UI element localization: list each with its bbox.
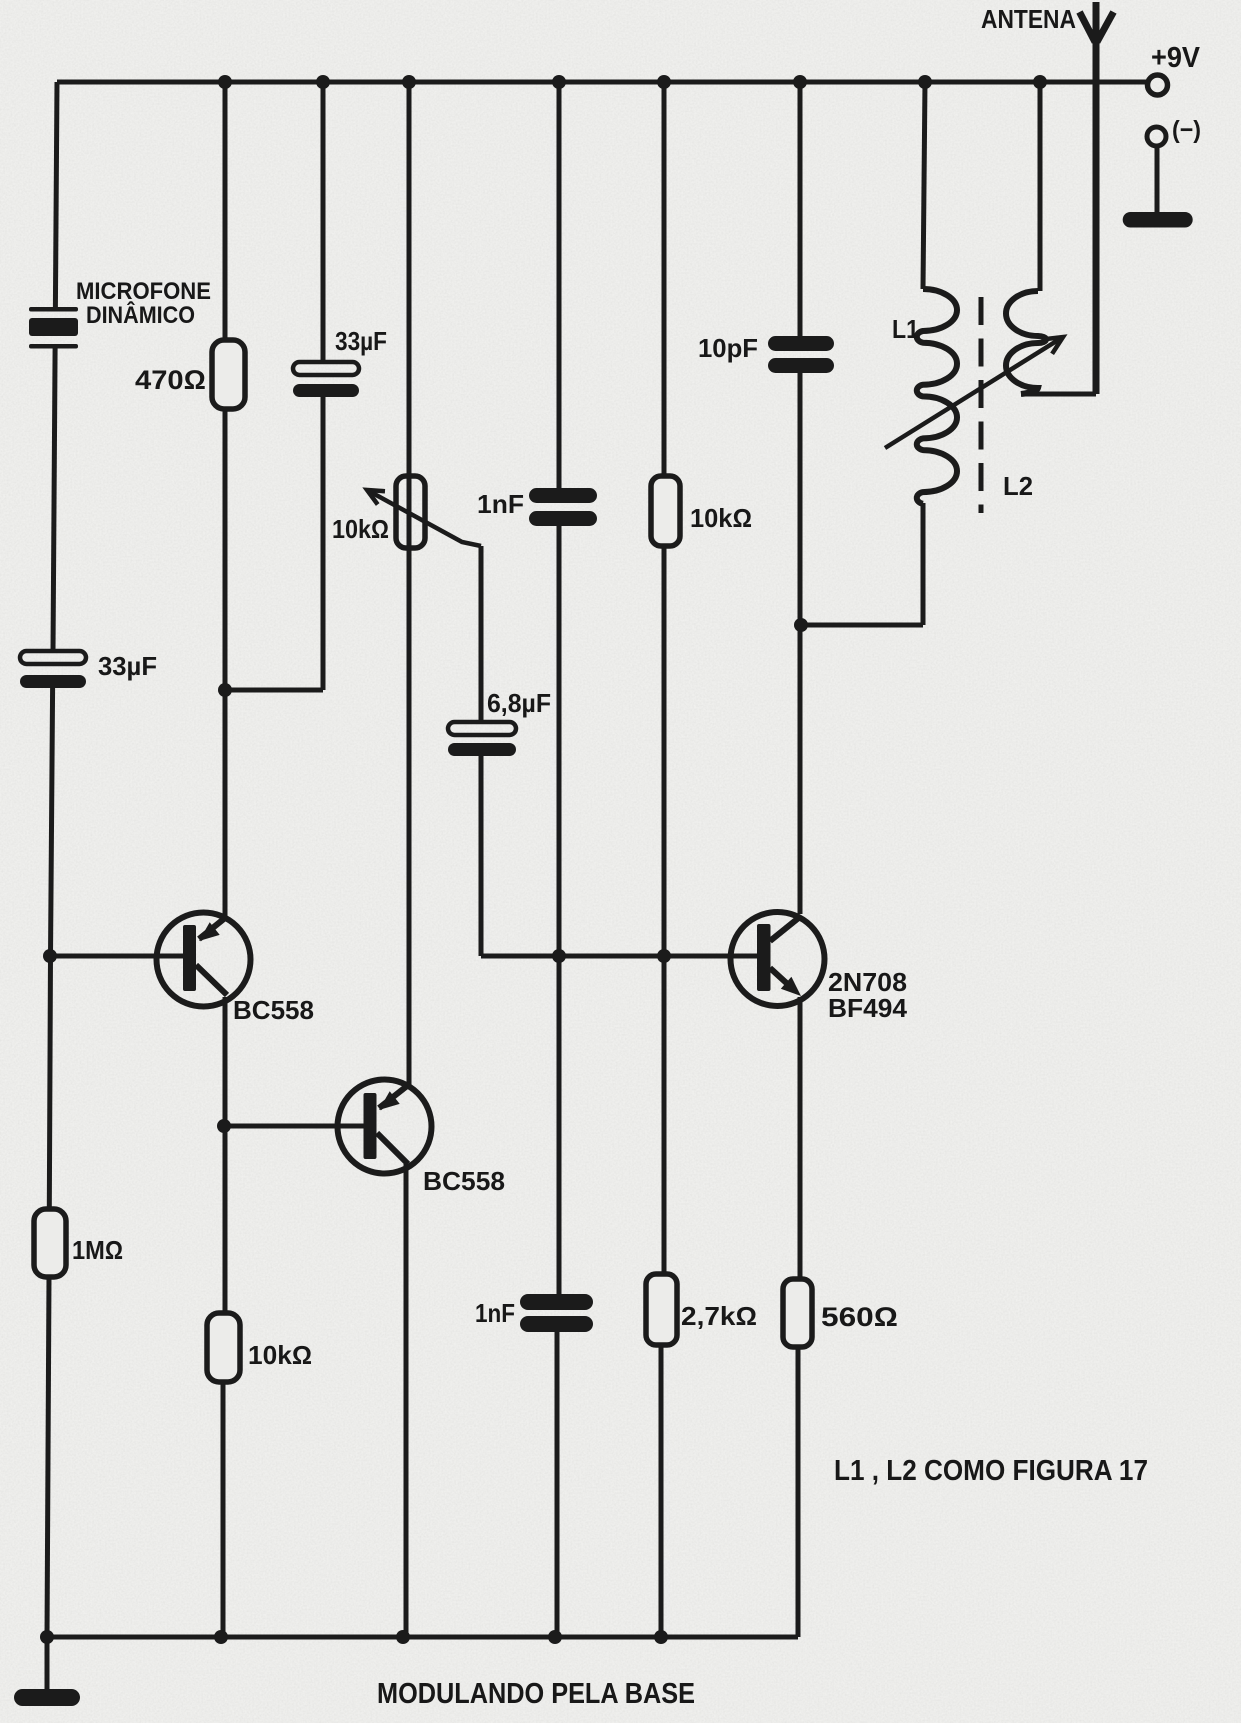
capacitor C 33uF top (293, 362, 359, 397)
node dot top rail x664 (657, 75, 671, 89)
node dot bottom rail x47 (40, 1630, 54, 1644)
wire bottom ground rail (47, 1635, 798, 1640)
capacitor C 33uF left (20, 651, 86, 688)
svg-text:10kΩ: 10kΩ (332, 514, 389, 544)
svg-text:MICROFONE: MICROFONE (76, 278, 211, 305)
inductor L1 (917, 82, 957, 625)
node dot top rail x925 (918, 75, 932, 89)
wire left rail (55, 82, 57, 307)
node dot Q2 base junction (217, 1119, 231, 1133)
wire branch 1nF column (557, 82, 559, 1637)
capacitor C 6.8uF (448, 722, 516, 756)
capacitor C 10pF (768, 336, 834, 373)
wire branch 10pF / Q3 / 560 column (798, 82, 800, 1637)
node dot top rail x409 (402, 75, 416, 89)
svg-text:10kΩ: 10kΩ (690, 503, 752, 533)
svg-text:2,7kΩ: 2,7kΩ (681, 1301, 757, 1331)
node dot bottom rail x555 (548, 1630, 562, 1644)
svg-text:1nF: 1nF (475, 1298, 515, 1328)
node dot top rail x225 (218, 75, 232, 89)
transistor Q2 BC558 (224, 1080, 432, 1174)
node dot L1 junction x801 y625 (794, 618, 808, 632)
node dot top rail x800 (793, 75, 807, 89)
potentiometer P 10k body (396, 476, 425, 548)
svg-text:6,8µF: 6,8µF (487, 688, 551, 718)
node dot bottom rail x403 (396, 1630, 410, 1644)
microphone MIC body (29, 307, 78, 349)
svg-text:L1: L1 (892, 314, 919, 344)
antenna V symbol (1080, 12, 1114, 42)
node dot bottom rail x221 (214, 1630, 228, 1644)
tuning arrow (885, 337, 1063, 448)
node dot top rail x1040 (1033, 75, 1047, 89)
wire branch 33uF top (321, 82, 326, 690)
svg-text:BC558: BC558 (233, 995, 314, 1025)
node dot top rail x559 (552, 75, 566, 89)
resistor R 10k lower left (207, 1313, 240, 1382)
node dot top rail x323 (316, 75, 330, 89)
node dot left rail base Q1 (43, 949, 57, 963)
ground right (1123, 146, 1193, 228)
wire branch potentiometer to Q2 emitter (406, 82, 409, 1637)
svg-text:1nF: 1nF (477, 489, 524, 519)
svg-text:ANTENA: ANTENA (981, 4, 1076, 34)
svg-text:(−): (−) (1172, 116, 1201, 144)
svg-text:10kΩ: 10kΩ (248, 1340, 312, 1370)
node dot base bus x559 (552, 949, 566, 963)
wire wiper branch to 6.8uF (479, 546, 484, 956)
svg-text:BC558: BC558 (423, 1166, 505, 1196)
resistor R 560 (783, 1279, 812, 1347)
svg-text:560Ω: 560Ω (821, 1302, 898, 1332)
dashed coupling line (979, 297, 984, 513)
wire top +9V rail (57, 80, 1147, 85)
transistor Q1 BC558 (50, 913, 251, 1007)
antenna mast (1093, 2, 1100, 394)
capacitor C 1nF top (529, 488, 597, 526)
inductor L2 (1006, 82, 1096, 394)
svg-text:L2: L2 (1003, 471, 1033, 501)
capacitor C 1nF bottom (520, 1294, 593, 1332)
node dot emitter junction x225 y690 (218, 683, 232, 697)
terminal +9V (1148, 75, 1168, 95)
wire branch 470 ohm (223, 82, 225, 1637)
svg-text:BF494: BF494 (828, 993, 908, 1023)
svg-text:DINÂMICO: DINÂMICO (86, 301, 195, 329)
ground bottom left (14, 1637, 80, 1706)
svg-text:33µF: 33µF (335, 326, 387, 356)
resistor R 10k mid (651, 476, 680, 546)
svg-text:1MΩ: 1MΩ (72, 1235, 123, 1265)
resistor R 1M (34, 1209, 66, 1277)
svg-text:10pF: 10pF (698, 333, 758, 363)
svg-text:33µF: 33µF (98, 651, 157, 681)
node dot base bus x664 (657, 949, 671, 963)
resistor R 470 (212, 340, 245, 409)
wire L1 bottom link (801, 623, 923, 628)
wire y690 from 470 branch to 33uF branch (225, 688, 323, 693)
transistor Q3 2N708/BF494 (731, 912, 825, 1006)
svg-text:470Ω: 470Ω (135, 365, 206, 395)
svg-text:MODULANDO PELA BASE: MODULANDO PELA BASE (377, 1678, 695, 1710)
potentiometer arrow (367, 490, 481, 546)
wire base bus y956 (481, 954, 757, 959)
wire branch 10k/2.7k column (661, 82, 664, 1637)
resistor R 2.7k (646, 1274, 677, 1345)
terminal (-) (1147, 127, 1166, 146)
svg-text:+9V: +9V (1151, 42, 1201, 74)
node dot bottom rail x661 (654, 1630, 668, 1644)
svg-text:L1 , L2 COMO FIGURA 17: L1 , L2 COMO FIGURA 17 (834, 1455, 1148, 1487)
